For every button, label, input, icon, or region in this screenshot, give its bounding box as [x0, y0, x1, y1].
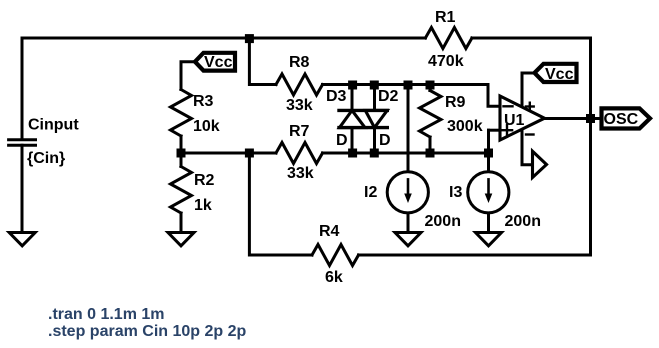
svg-text:{Cin}: {Cin} — [27, 150, 65, 167]
svg-text:R7: R7 — [289, 123, 310, 140]
svg-text:R1: R1 — [435, 9, 456, 26]
svg-text:300k: 300k — [447, 118, 483, 135]
svg-text:R2: R2 — [194, 172, 215, 189]
svg-text:Cinput: Cinput — [28, 117, 79, 134]
svg-text:D: D — [379, 132, 391, 149]
svg-text:10k: 10k — [193, 118, 220, 135]
svg-text:.tran 0 1.1m 1m: .tran 0 1.1m 1m — [48, 306, 165, 323]
svg-text:33k: 33k — [286, 97, 313, 114]
svg-text:200n: 200n — [505, 213, 541, 230]
svg-text:R9: R9 — [445, 94, 466, 111]
svg-text:200n: 200n — [425, 213, 461, 230]
svg-text:Vcc: Vcc — [545, 66, 574, 83]
svg-text:6k: 6k — [325, 269, 343, 286]
svg-text:D3: D3 — [326, 88, 347, 105]
svg-text:OSC: OSC — [604, 111, 639, 128]
svg-text:R4: R4 — [319, 223, 340, 240]
svg-text:.step param Cin 10p 2p 2p: .step param Cin 10p 2p 2p — [48, 323, 247, 340]
svg-text:I3: I3 — [449, 184, 462, 201]
svg-text:I2: I2 — [364, 184, 377, 201]
svg-text:R8: R8 — [289, 54, 310, 71]
svg-text:R3: R3 — [193, 93, 214, 110]
svg-text:Vcc: Vcc — [204, 54, 233, 71]
svg-text:470k: 470k — [428, 53, 464, 70]
svg-text:D: D — [336, 132, 348, 149]
svg-text:33k: 33k — [287, 165, 314, 182]
svg-text:D2: D2 — [378, 88, 399, 105]
svg-text:U1: U1 — [504, 112, 525, 129]
svg-text:1k: 1k — [194, 197, 212, 214]
